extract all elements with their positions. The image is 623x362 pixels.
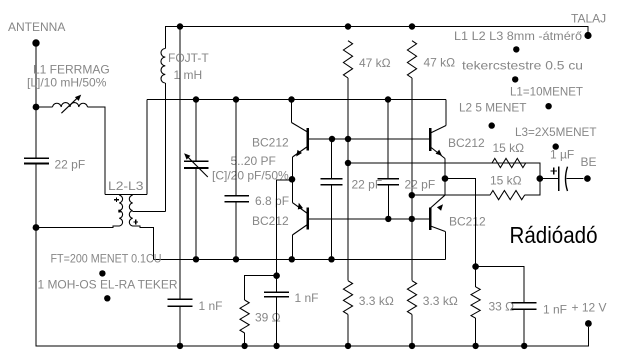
svg-text:3.3 kΩ: 3.3 kΩ: [359, 294, 394, 308]
node Q3 Q4 emitters: [442, 175, 449, 182]
wire C 1nF no1 bottom lead: [179, 306, 181, 346]
node C 6.8pF top: [233, 96, 239, 102]
wire L2 bottom to antenna node: [36, 226, 119, 228]
wire transformer top rail: [105, 194, 147, 196]
resistor R15k lower: [490, 191, 525, 200]
capacitor C1 22pF plates: [24, 158, 49, 163]
node C 1nF no3 bottom: [521, 343, 527, 349]
node col412 / emitter line: [409, 192, 415, 198]
handle dot G: [553, 143, 559, 149]
capacitor 6.8pF plates: [224, 196, 248, 202]
svg-text:1 nF: 1 nF: [295, 291, 319, 305]
inductor FOJT-T 1mH body: [161, 49, 165, 84]
wire C 6.8pF top lead: [235, 100, 237, 196]
transformer winding L2 (left): [119, 195, 122, 226]
wire bus y100 left drop to transformer: [146, 100, 148, 195]
svg-text:15 kΩ: 15 kΩ: [490, 174, 522, 188]
resistor R 33 Ohm: [471, 287, 480, 318]
wire C 6.8pF bottom lead: [235, 202, 237, 259]
wire 39R jog: [245, 276, 277, 300]
node top bus / column 180: [177, 23, 183, 29]
wire C 1nF mid top lead: [276, 276, 278, 293]
svg-text:BC212: BC212: [252, 214, 289, 228]
capacitor 22pF no2 plates: [378, 179, 400, 185]
arrow varcap adjustment: [184, 153, 208, 177]
wire bus node column x180: [179, 27, 181, 300]
node antenna/transformer junction: [33, 224, 40, 231]
capacitor 22pF no1 plates: [321, 179, 343, 185]
resistor R 3.3k no2: [407, 281, 416, 315]
transistor Q3 BC212: [430, 100, 446, 196]
wire C 1nF mid bottom lead: [276, 297, 278, 346]
wire oscillator emitter bus y259: [154, 258, 446, 260]
node C22pF no1 bottom: [328, 256, 334, 262]
wire bottom ground bus: [36, 164, 588, 346]
wire R 47k no2 leads: [411, 78, 413, 281]
node C 6.8pF bottom: [233, 256, 239, 262]
svg-text:ANTENNA: ANTENNA: [8, 20, 65, 34]
svg-text:L3=2X5MENET: L3=2X5MENET: [515, 125, 597, 139]
resistor R 3.3k no1: [343, 281, 352, 315]
wire C22pF no2 top lead: [387, 100, 389, 179]
wire top supply bus: [165, 27, 588, 33]
node C 1nF no1 bottom: [177, 343, 183, 349]
resistor R 47k no1: [343, 41, 352, 78]
node varcap top: [193, 96, 199, 102]
wire R3.3k no2 bottom lead: [411, 314, 413, 346]
wire L3 center tap: [133, 211, 166, 213]
wire R 47k no1 bottom lead: [347, 78, 349, 281]
capacitor C 1nF no1 plates: [167, 299, 192, 306]
wire antenna lead: [35, 43, 37, 158]
svg-text:L2 5 MENET: L2 5 MENET: [459, 101, 527, 115]
svg-text:5..20 PF: 5..20 PF: [231, 154, 276, 168]
transistor Q4 BC212: [430, 195, 445, 259]
ground terminal TALAJ dot: [584, 32, 591, 39]
svg-text:1 nF: 1 nF: [199, 299, 223, 313]
capacitor C 1nF no3 plates: [512, 303, 537, 310]
svg-text:L1 FERRMAG: L1 FERRMAG: [33, 63, 110, 77]
svg-text:tekercstestre 0.5 cu: tekercstestre 0.5 cu: [462, 59, 583, 73]
node L1 junction: [33, 104, 40, 111]
svg-text:[L]/10 mH/50%: [L]/10 mH/50%: [27, 76, 107, 90]
wire L1 right lead to transformer: [88, 107, 106, 195]
capacitor C 1uF electrolytic: [540, 167, 584, 191]
svg-text:BE: BE: [581, 155, 597, 169]
polarity square mark L2: [118, 210, 120, 213]
handle dot F: [489, 122, 495, 128]
node emitters Q1 Q2: [289, 176, 296, 183]
node R33 bottom: [472, 343, 478, 349]
wire line y195 to R15k lower: [412, 194, 490, 196]
capacitor variable plates: [184, 161, 208, 168]
node R3.3k no1 bottom: [345, 343, 351, 349]
wire C22pF no1 bottom lead: [331, 185, 333, 259]
wire R3.3k no1 bottom lead: [347, 314, 349, 346]
resistor R 47k no2: [407, 41, 416, 78]
svg-text:TALAJ: TALAJ: [571, 12, 606, 26]
svg-text:BC212: BC212: [448, 136, 485, 150]
wire 1nF no3 top feed: [476, 267, 524, 303]
svg-text:FT=200 MENET 0.1CU: FT=200 MENET 0.1CU: [51, 252, 162, 266]
svg-text:BC212: BC212: [449, 215, 486, 229]
wire bus y100: [147, 99, 446, 101]
wire Q1Q2 emitters to 39R: [277, 180, 292, 276]
svg-text:Rádióadó: Rádióadó: [510, 222, 598, 248]
antenna terminal dot: [32, 39, 39, 46]
wire C 1nF no3 bottom lead: [523, 309, 525, 346]
wire C22pF no2 bottom lead: [387, 185, 389, 219]
node R39 bottom: [241, 343, 247, 349]
node Q1 collector bus: [288, 96, 294, 102]
node Q2 collector bus: [289, 256, 295, 262]
svg-text:L2-L3: L2-L3: [108, 179, 144, 193]
wire L3 bottom to emitter bus: [133, 226, 154, 259]
node C22pF no2 bottom: [385, 216, 391, 222]
handle dot A: [99, 270, 105, 276]
handle dot C: [513, 46, 519, 52]
node base line / C22pF no1: [329, 136, 335, 142]
node col348 / 15k line: [345, 160, 351, 166]
svg-text:22 pF: 22 pF: [405, 178, 436, 192]
svg-text:33 Ω: 33 Ω: [489, 300, 515, 314]
svg-text:+ 12 V: + 12 V: [572, 301, 607, 315]
svg-text:6.8 pF: 6.8 pF: [255, 194, 289, 208]
svg-text:FOJT-T: FOJT-T: [168, 51, 209, 65]
node C22pF no2 top: [385, 96, 391, 102]
node 33R top: [472, 263, 479, 270]
wire emitter feed to 33R: [445, 179, 476, 267]
transistor Q2 BC212: [292, 179, 307, 259]
svg-text:L1=10MENET: L1=10MENET: [510, 85, 584, 99]
arrow L1 adjustment: [61, 95, 81, 114]
wire C22pF no1 top lead: [331, 139, 333, 179]
transistor Q1 BC212: [292, 100, 308, 177]
svg-text:BC212: BC212: [252, 136, 289, 150]
wire FOJT-T bottom lead to center tap: [164, 83, 166, 212]
wire R39 bottom lead: [244, 333, 246, 346]
capacitor C 1nF mid plates: [264, 292, 289, 297]
node col412 / base line lower: [409, 216, 415, 222]
node varcap bottom: [193, 256, 199, 262]
node R3.3k no2 bottom: [409, 343, 415, 349]
power terminal +12V dot: [585, 320, 592, 327]
svg-text:1 nF: 1 nF: [543, 303, 567, 317]
wire base line upper y139: [308, 138, 430, 140]
wire FOJT-T top lead: [164, 27, 166, 49]
svg-text:1 µF: 1 µF: [550, 148, 574, 162]
wire R33 leads: [475, 267, 477, 287]
wire L1 left lead: [36, 106, 53, 108]
node R 47k no2 top: [409, 23, 415, 29]
node R 47k no1 top: [345, 23, 351, 29]
svg-text:1 mH: 1 mH: [174, 68, 203, 82]
svg-text:22 pF: 22 pF: [55, 158, 86, 172]
svg-text:15 kΩ: 15 kΩ: [493, 141, 525, 155]
node base line / col348: [345, 136, 351, 142]
wire line y163 to R15k upper: [348, 163, 540, 179]
handle dot E: [545, 103, 551, 109]
svg-text:L1 L2 L3 8mm -átmérő: L1 L2 L3 8mm -átmérő: [454, 29, 582, 43]
transformer winding L3 (right): [129, 195, 132, 226]
svg-text:1 MOH-OS EL-RA TEKER: 1 MOH-OS EL-RA TEKER: [38, 278, 178, 292]
svg-text:3.3 kΩ: 3.3 kΩ: [423, 294, 458, 308]
wire varcap top lead: [195, 100, 197, 162]
node R15k junction: [537, 175, 544, 182]
svg-text:47 kΩ: 47 kΩ: [359, 56, 391, 70]
wire base line lower y219: [308, 218, 430, 220]
handle dot D: [512, 76, 518, 82]
inductor L1 body (variable, ferrite): [53, 103, 88, 107]
polarity + mark L3 bottom: [133, 220, 138, 225]
polarity + mark L2 top: [114, 197, 119, 202]
node C 1nF mid bottom: [273, 343, 279, 349]
wire R15k lower right lead: [525, 179, 540, 196]
svg-text:47 kΩ: 47 kΩ: [424, 56, 456, 70]
resistor R 39 Ohm: [240, 300, 249, 333]
output terminal BE dot: [584, 175, 591, 182]
resistor R15k upper: [492, 158, 526, 167]
handle dot B: [104, 295, 110, 301]
wire varcap bottom lead: [195, 168, 197, 259]
node 39R/1nF junction: [273, 272, 280, 279]
